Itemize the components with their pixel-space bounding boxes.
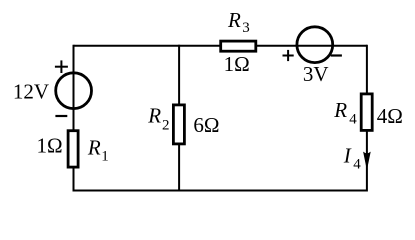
svg-text:2: 2 <box>162 117 170 133</box>
resistor R2 <box>173 105 184 144</box>
svg-text:4: 4 <box>353 157 361 173</box>
svg-text:6Ω: 6Ω <box>193 113 219 137</box>
svg-text:12V: 12V <box>13 80 49 104</box>
minus sign V2 <box>331 54 342 56</box>
wire left <box>73 45 75 192</box>
plus sign V1 <box>55 60 68 73</box>
svg-text:R: R <box>227 8 241 32</box>
svg-text:3: 3 <box>242 20 250 36</box>
svg-text:4: 4 <box>349 112 357 128</box>
resistor R3 <box>221 41 256 51</box>
svg-text:1Ω: 1Ω <box>37 133 63 157</box>
voltage source V1 12V <box>56 73 92 109</box>
minus sign V1 <box>55 115 67 117</box>
svg-text:R: R <box>333 98 347 122</box>
wire bottom <box>74 190 367 192</box>
svg-text:4Ω: 4Ω <box>377 104 403 128</box>
voltage source V2 3V <box>297 27 333 63</box>
svg-text:1Ω: 1Ω <box>224 52 250 76</box>
wire middle <box>178 45 180 192</box>
wire top <box>74 45 367 47</box>
svg-text:R: R <box>147 103 161 127</box>
svg-text:1: 1 <box>101 149 109 165</box>
resistor R4 <box>361 94 372 130</box>
current arrow I4 <box>363 152 371 171</box>
wire right <box>366 45 368 192</box>
svg-text:R: R <box>87 136 101 160</box>
svg-text:I: I <box>343 143 352 167</box>
svg-text:3V: 3V <box>303 62 329 86</box>
plus sign V2 <box>283 50 294 61</box>
resistor R1 <box>68 131 78 167</box>
